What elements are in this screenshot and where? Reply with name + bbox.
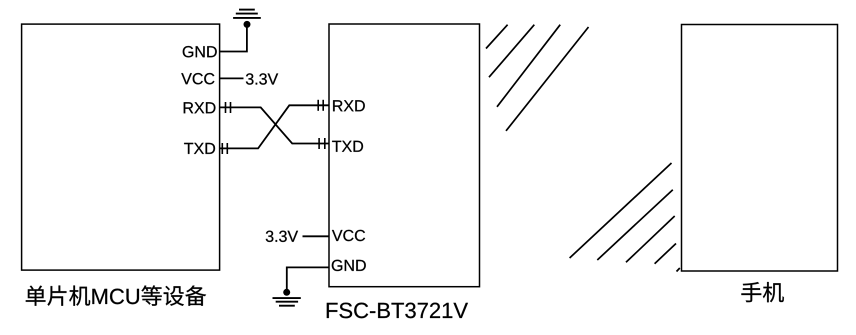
pin label RXD (module) (333, 100, 365, 111)
junction dot at bottom ground (283, 289, 290, 296)
caption MCU letters (92, 289, 139, 305)
MCU block U1 (22, 24, 220, 270)
wire 3.3V label to module VCC pin (303, 235, 330, 237)
earth ground symbol (top) (233, 10, 261, 18)
wire MCU GND pin to ground junction (220, 26, 247, 52)
pin label TXD (MCU) (184, 143, 215, 154)
wire MCU VCC pin to 3.3V label (220, 77, 244, 79)
junction dot at top ground (244, 21, 251, 28)
wire module GND pin to ground (287, 267, 329, 290)
pin label VCC (module) (332, 230, 365, 241)
caption phone 手机 (741, 282, 783, 302)
tick marks on module RXD pin (317, 100, 319, 111)
earth ground symbol (bottom) (273, 298, 301, 306)
RF link hatch (lower group) (570, 163, 680, 272)
RF link hatch (upper group) (486, 25, 589, 131)
net label 3.3V (top) (246, 73, 278, 84)
wire MCU RXD to module TXD (crossover) (220, 107, 329, 143)
module block FSC-BT3721V (329, 24, 480, 287)
net label 3.3V (bottom) (266, 231, 298, 242)
tick marks on module TXD pin (318, 138, 320, 149)
pin label VCC (MCU) (181, 73, 214, 84)
pin label GND (MCU) (183, 46, 217, 57)
pin label TXD (module) (332, 141, 363, 152)
caption MCU device (Chinese) part1 单片机 (26, 286, 90, 306)
tick marks on MCU RXD pin (225, 102, 227, 113)
caption FSC-BT3721V (327, 303, 468, 319)
pin label GND (module) (332, 260, 366, 271)
caption MCU device (Chinese) part2 等设备 (141, 285, 206, 305)
wire MCU TXD to module RXD (crossover) (220, 105, 329, 148)
pin label RXD (MCU) (184, 102, 216, 113)
tick marks on MCU TXD pin (221, 143, 223, 154)
phone block (682, 25, 838, 272)
